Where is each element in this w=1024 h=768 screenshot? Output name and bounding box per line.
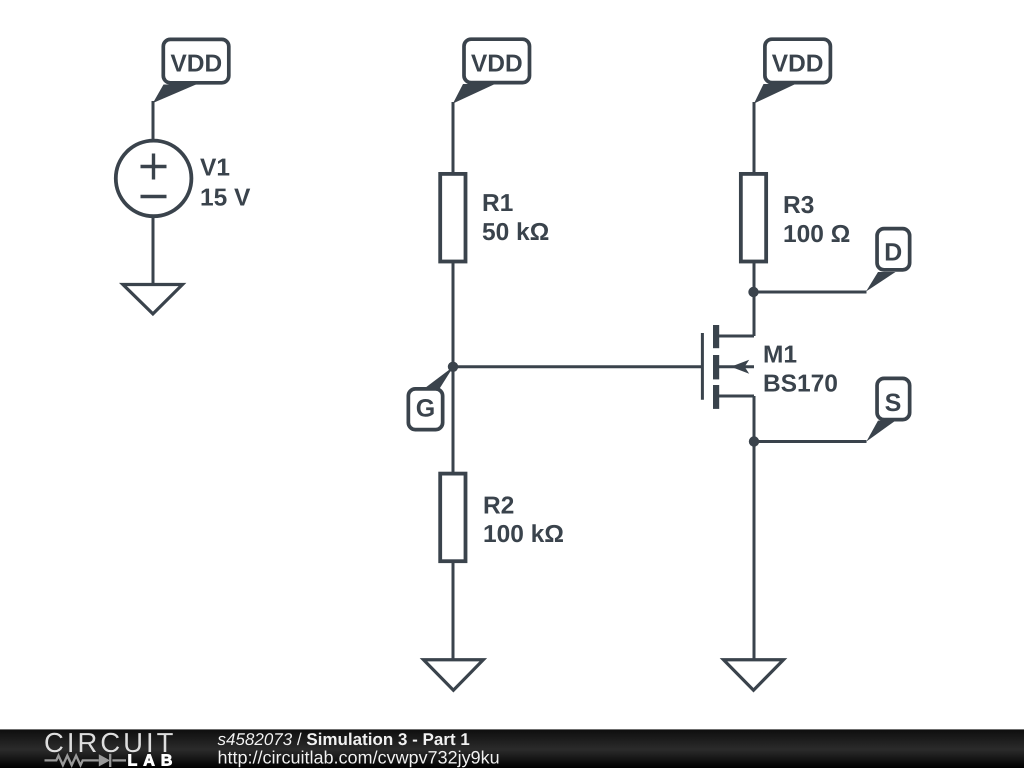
logo resistor and diode glyph [45,754,127,767]
wire R3 to M1 drain [753,262,756,337]
logo wordmark LAB [129,754,172,765]
schematic title text [218,733,470,746]
label M1 [765,346,797,363]
resistor R3 [741,174,766,262]
label R1 [484,194,513,211]
node G junction dot [448,362,458,372]
net flag G [408,367,453,430]
wire V1 minus to ground [152,216,155,285]
wire VDD to R1 [452,102,455,175]
node D junction dot [748,287,758,297]
wire VDD to V1 plus [152,101,155,142]
resistor R2 [440,474,465,562]
node S junction dot [749,436,759,446]
ground at R2 [424,660,484,690]
wire gate node to M1 gate [453,365,701,368]
label R2 [485,496,514,513]
resistor R1 [440,174,465,262]
net flag VDD at V1 [153,39,229,103]
net flag VDD at R3 [754,39,830,103]
wire source node to S flag [754,440,867,443]
transistor M1 BS170 [702,325,754,409]
voltage source V1 [116,141,192,217]
value label 50 kOhm [483,222,549,240]
ground at V1 [123,285,183,314]
net flag S [866,378,909,441]
label R3 [785,196,814,213]
value label BS170 [765,374,837,391]
value label 15 V [202,189,251,206]
value label 100 kOhm [485,524,563,542]
CircuitLab logo wordmark CIRCUIT [45,733,172,752]
ground at M1 source [724,660,784,690]
wire M1 drain vertical [753,292,756,336]
wire M1 source vertical [753,396,756,442]
wire source to ground [753,442,756,661]
footer bar [0,729,1024,768]
wire VDD to R3 [753,102,756,175]
schematic url text [219,750,499,767]
wire drain node to D flag [754,291,867,294]
net flag D [866,229,910,292]
value label 100 Ohm [785,225,850,242]
net flag VDD at R1 [453,39,530,103]
wire R1 to R2 [452,262,455,474]
wire R2 to ground [452,561,455,660]
label V1 [200,159,229,176]
